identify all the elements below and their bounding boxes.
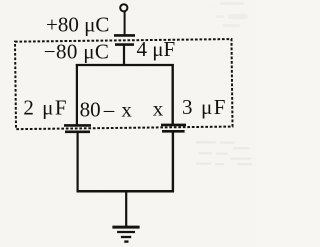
terminal (input node) — [120, 4, 127, 11]
capacitor C3 3uF : bottom plate — [162, 130, 185, 133]
wire C4 bottom plate to inner node bar — [123, 46, 125, 66]
svg-text:– x: – x — [103, 98, 133, 122]
capacitor C3 3uF : top plate — [161, 124, 186, 127]
wire bus to ground — [125, 191, 127, 227]
ground — [112, 227, 139, 242]
wire left branch down — [76, 64, 78, 125]
paper background — [0, 0, 256, 247]
svg-text:80: 80 — [80, 98, 101, 122]
capacitor C4 4uF : top plate — [114, 34, 135, 37]
wire C3 bottom plate down — [172, 132, 174, 192]
svg-text:2 μF: 2 μF — [23, 95, 68, 119]
faint bleed-through smudges — [196, 141, 252, 165]
wire right branch down — [171, 64, 173, 124]
svg-text:x: x — [153, 97, 164, 121]
bottom bus wire — [77, 190, 175, 193]
capacitor C2 2uF : bottom plate — [65, 131, 90, 134]
paper grain — [0, 0, 1, 1]
inner node top bar wire — [76, 64, 174, 66]
svg-text:−80 μC: −80 μC — [44, 40, 109, 64]
faint corner smudges — [216, 2, 248, 27]
dashed charge-boundary box — [15, 39, 233, 129]
svg-text:4 μF: 4 μF — [137, 37, 176, 61]
wire C2 bottom plate down — [76, 132, 78, 192]
svg-text:3 μF: 3 μF — [182, 95, 227, 119]
wire terminal to C4 top plate — [124, 11, 126, 35]
capacitor C2 2uF : top plate — [64, 124, 91, 127]
capacitor C4 4uF : bottom plate — [115, 43, 134, 46]
svg-text:+80 μC: +80 μC — [46, 13, 109, 37]
